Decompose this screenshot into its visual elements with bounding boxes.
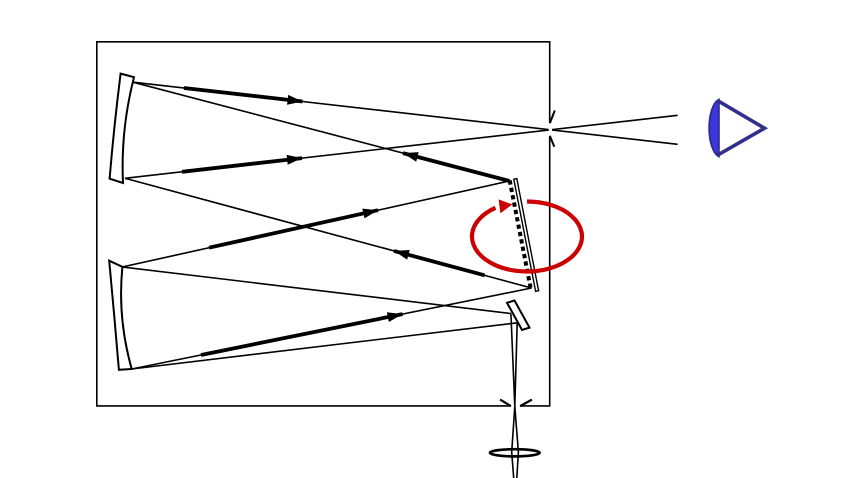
wire ray fold mirror to entrance slit right edge [515, 323, 517, 407]
eye lens (blue crescent) [709, 100, 719, 157]
wire ray M1 top to exit slit and beyond [133, 82, 678, 144]
grating rotation arrow (red ellipse arc) [472, 199, 582, 271]
grating body [514, 179, 539, 292]
mirror M2 (bottom concave mirror) [109, 261, 132, 370]
grating groove dashes [510, 180, 531, 287]
wire ray M2 bottom to grating bottom [132, 288, 532, 369]
wire ray fold mirror to entrance slit left edge [511, 314, 515, 407]
mirror M1 (top concave mirror) [110, 74, 134, 183]
lens [490, 449, 540, 456]
wire ray fold mirror to M2 top [122, 267, 511, 314]
wire ray entrance slit through lens left [512, 406, 515, 478]
exit slit focal point gap [549, 128, 552, 131]
thick arrow A5: M2 to grating lower beam [201, 314, 403, 355]
wire ray M2 top to grating top [122, 181, 509, 267]
thick arrow A3: grating bottom to M1 [394, 251, 485, 275]
thick arrow A4: M2 to grating upper beam [209, 210, 378, 248]
exit slit upper jaw arrow [550, 111, 555, 124]
thick arrow A6: M1 to exit slit lower beam [182, 158, 302, 172]
wire ray grating top to M1 top [133, 82, 510, 181]
wire ray M1 bottom to exit slit and beyond [125, 115, 678, 178]
wire ray fold mirror to M2 bottom [132, 323, 518, 369]
thick arrow A2: grating top to M1 [403, 153, 510, 181]
wire ray grating bottom to M1 bottom [125, 178, 532, 288]
entrance slit right jaw arrow [520, 400, 532, 407]
exit slit lower jaw arrow [550, 136, 555, 147]
wire ray entrance slit through lens right [515, 406, 519, 478]
thick arrow A1: M1 to exit slit upper beam [184, 88, 303, 102]
eye outline triangle [719, 101, 765, 154]
entrance slit left jaw arrow [500, 400, 511, 407]
enclosure box with slit gaps [97, 42, 550, 406]
fold mirror [507, 301, 530, 330]
